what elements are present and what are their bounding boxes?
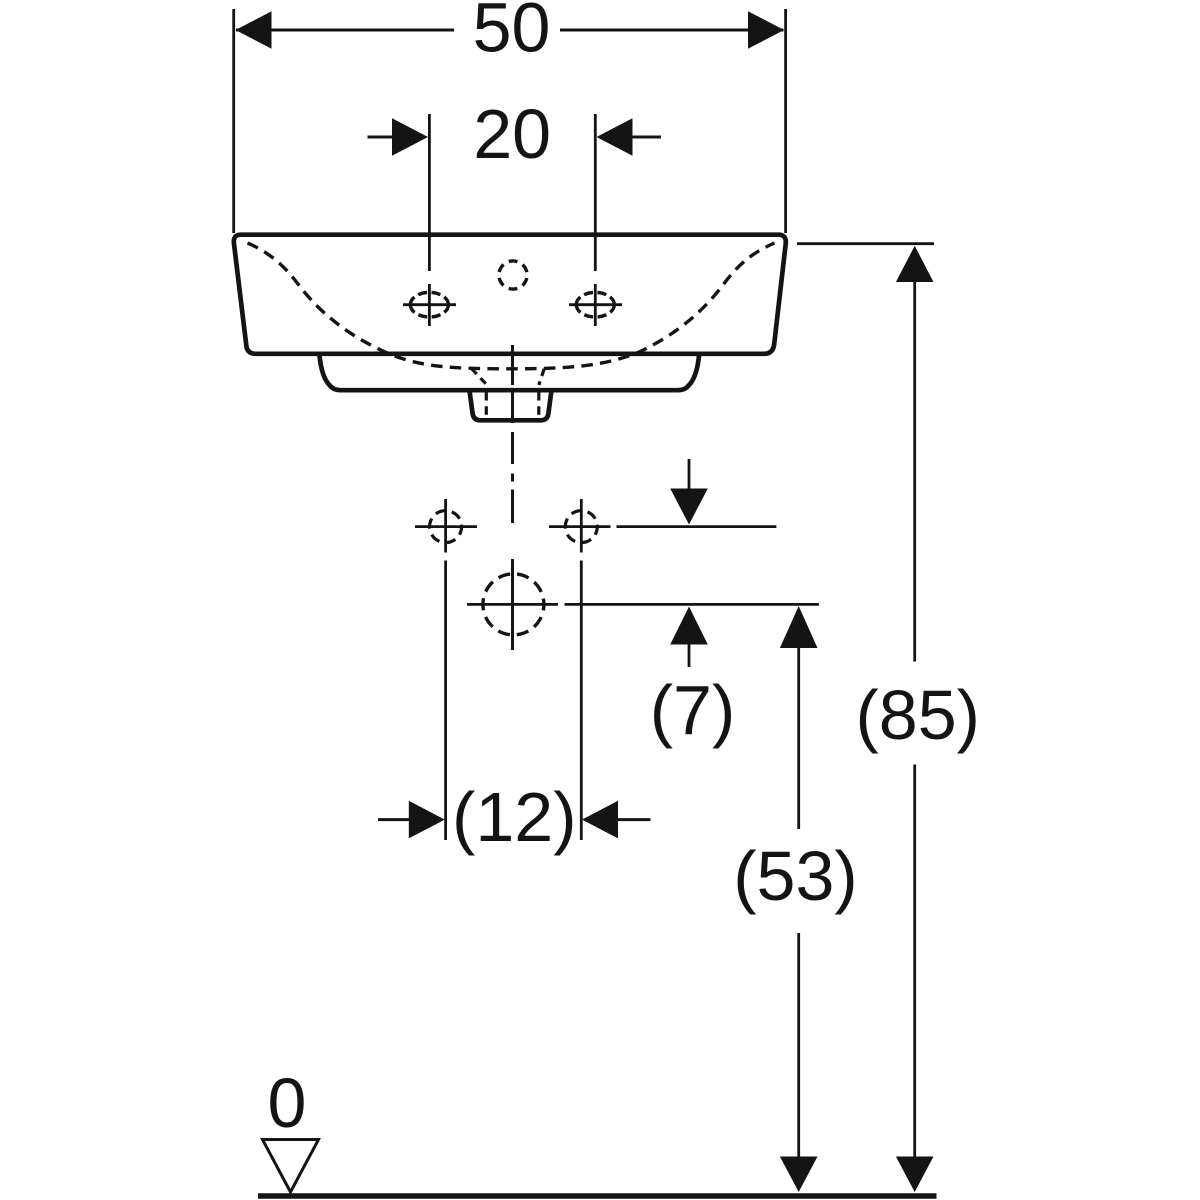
dimension (7): lower arrow tail [688, 644, 691, 667]
reference line at mounting-hole height [617, 525, 777, 528]
reference line at basin top going right [797, 242, 934, 245]
dimension (12): right tail line [617, 818, 651, 821]
right tap hole: vertical cross line [594, 284, 597, 326]
dimension (85): lower line segment [913, 765, 916, 1158]
left mounting hole: vertical cross line [444, 499, 447, 553]
dimension (53): lower line segment [797, 933, 800, 1157]
dimension 20: extension line left [428, 114, 431, 271]
dimension (7): upper arrow tail [688, 459, 691, 490]
drain interior dashed line left [485, 392, 488, 416]
svg-text:(7): (7) [650, 671, 736, 749]
semi-pedestal trapezoid [320, 356, 700, 390]
dimension (53): lower arrowhead (down) [780, 1157, 818, 1193]
dimension 20: extension line right [594, 114, 597, 271]
centerline cross through siphon circle [511, 559, 514, 650]
right tap hole: horizontal cross line [569, 303, 622, 306]
right mounting hole: horizontal cross line [549, 525, 611, 528]
washbasin inner rim dashed curve [248, 243, 775, 369]
left tap hole: vertical cross line [428, 284, 431, 326]
siphon hole: horizontal reference line left segment [467, 603, 558, 606]
dimension (85): upper arrowhead (up) [896, 246, 934, 282]
dimension (85): upper line segment [913, 281, 916, 662]
dimension 20: left tail line [368, 136, 394, 139]
dimension 50: right arrowhead [748, 11, 784, 49]
svg-text:20: 20 [473, 95, 551, 173]
siphon hole: big dashed circle [483, 574, 544, 635]
svg-text:(85): (85) [855, 676, 979, 754]
right tap hole: dashed ellipse [576, 292, 614, 317]
drain interior dashed line right [537, 392, 540, 416]
dimension 50: extension line left [232, 9, 235, 233]
ground line [258, 1193, 937, 1199]
washbasin body outline [234, 235, 786, 354]
dimension (53): upper line segment [797, 647, 800, 829]
reference line at siphon height to the right [565, 603, 819, 606]
svg-text:(53): (53) [733, 837, 857, 915]
dimension 50: dimension line left segment [236, 29, 454, 32]
dimension (7): lower arrowhead (up) [670, 607, 708, 645]
left mounting hole: dashed circle [430, 511, 462, 543]
vertical centerline (dash-dot) [511, 345, 514, 523]
dimension 20: right tail line [632, 136, 661, 139]
basin middle hole (dashed circle) [499, 261, 527, 289]
svg-text:50: 50 [473, 0, 551, 67]
datum triangle [263, 1140, 319, 1193]
dimension (85): lower arrowhead (down) [896, 1157, 934, 1193]
extension line below right mounting hole [580, 561, 583, 841]
dimension (7): upper arrowhead (down) [670, 489, 708, 525]
left tap hole: horizontal cross line [403, 303, 456, 306]
dimension 50: extension line right [784, 9, 787, 233]
dimension (12): left arrowhead [409, 801, 445, 839]
dimension 50: left arrowhead [236, 11, 272, 49]
funnel dashed line right [539, 369, 544, 385]
dimension 20: left arrowhead [392, 118, 428, 156]
extension line below left mounting hole [444, 561, 447, 841]
svg-text:0: 0 [268, 1064, 307, 1142]
svg-text:(12): (12) [452, 778, 576, 856]
left mounting hole: horizontal cross line [415, 525, 477, 528]
right mounting hole: vertical cross line [580, 499, 583, 553]
dimension 20: right arrowhead [597, 118, 633, 156]
drain box [470, 392, 552, 421]
dimension 50: dimension line right segment [560, 29, 784, 32]
left tap hole: dashed ellipse [410, 292, 448, 317]
dimension (12): left tail line [378, 818, 410, 821]
dimension (53): upper arrowhead (up) [780, 606, 818, 648]
funnel dashed line left [472, 369, 488, 386]
right mounting hole: dashed circle [565, 511, 597, 543]
dimension (12): right arrowhead [582, 801, 618, 839]
